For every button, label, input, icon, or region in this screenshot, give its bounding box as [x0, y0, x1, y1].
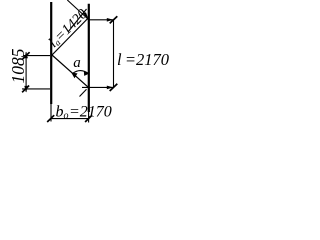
wire b0 dimension line	[51, 118, 89, 120]
wire la dimension line under text	[68, 9, 87, 32]
wire right wall	[88, 4, 90, 112]
wire left wall	[50, 2, 52, 104]
svg-text:l =2170: l =2170	[117, 50, 170, 69]
wire 1085 dimension vertical line	[25, 52, 27, 92]
wire bottom extension line of l dimension	[82, 86, 114, 88]
node arrowhead arc left	[71, 73, 77, 79]
node arrowhead 1085 top	[24, 52, 28, 59]
wire diagonal strut upper	[52, 18, 89, 56]
node arrowhead 1085 bottom	[24, 86, 28, 93]
wire tick at b0 right	[85, 115, 92, 122]
wire diagonal strut lower	[52, 55, 89, 88]
wire l dimension vertical line	[113, 20, 115, 88]
wire tick at l bottom	[110, 84, 118, 91]
wire tick at 1085 bottom	[22, 86, 29, 93]
wire top extension line of l dimension	[90, 19, 114, 21]
wire tick at l top	[110, 16, 118, 23]
node arrowhead l bottom corner	[107, 86, 114, 90]
svg-text:1085: 1085	[8, 48, 28, 83]
wire 1085 top extension	[24, 55, 51, 57]
node arrowhead l top corner	[107, 18, 114, 22]
wire stub below junction	[80, 89, 87, 96]
wire angle arc	[73, 71, 89, 74]
wire tick at b0 left	[47, 115, 54, 122]
wire left wall lower extension	[50, 104, 52, 122]
wire 1085 bottom extension	[22, 88, 50, 90]
svg-text:a: a	[73, 55, 81, 71]
wire right wall lower extension	[88, 112, 90, 123]
node arrowhead top extension junction	[83, 12, 88, 19]
node arrowhead arc right	[84, 71, 89, 76]
wire extension from top edge to wall	[67, 0, 88, 20]
wire tick at 1085 top	[23, 52, 30, 59]
